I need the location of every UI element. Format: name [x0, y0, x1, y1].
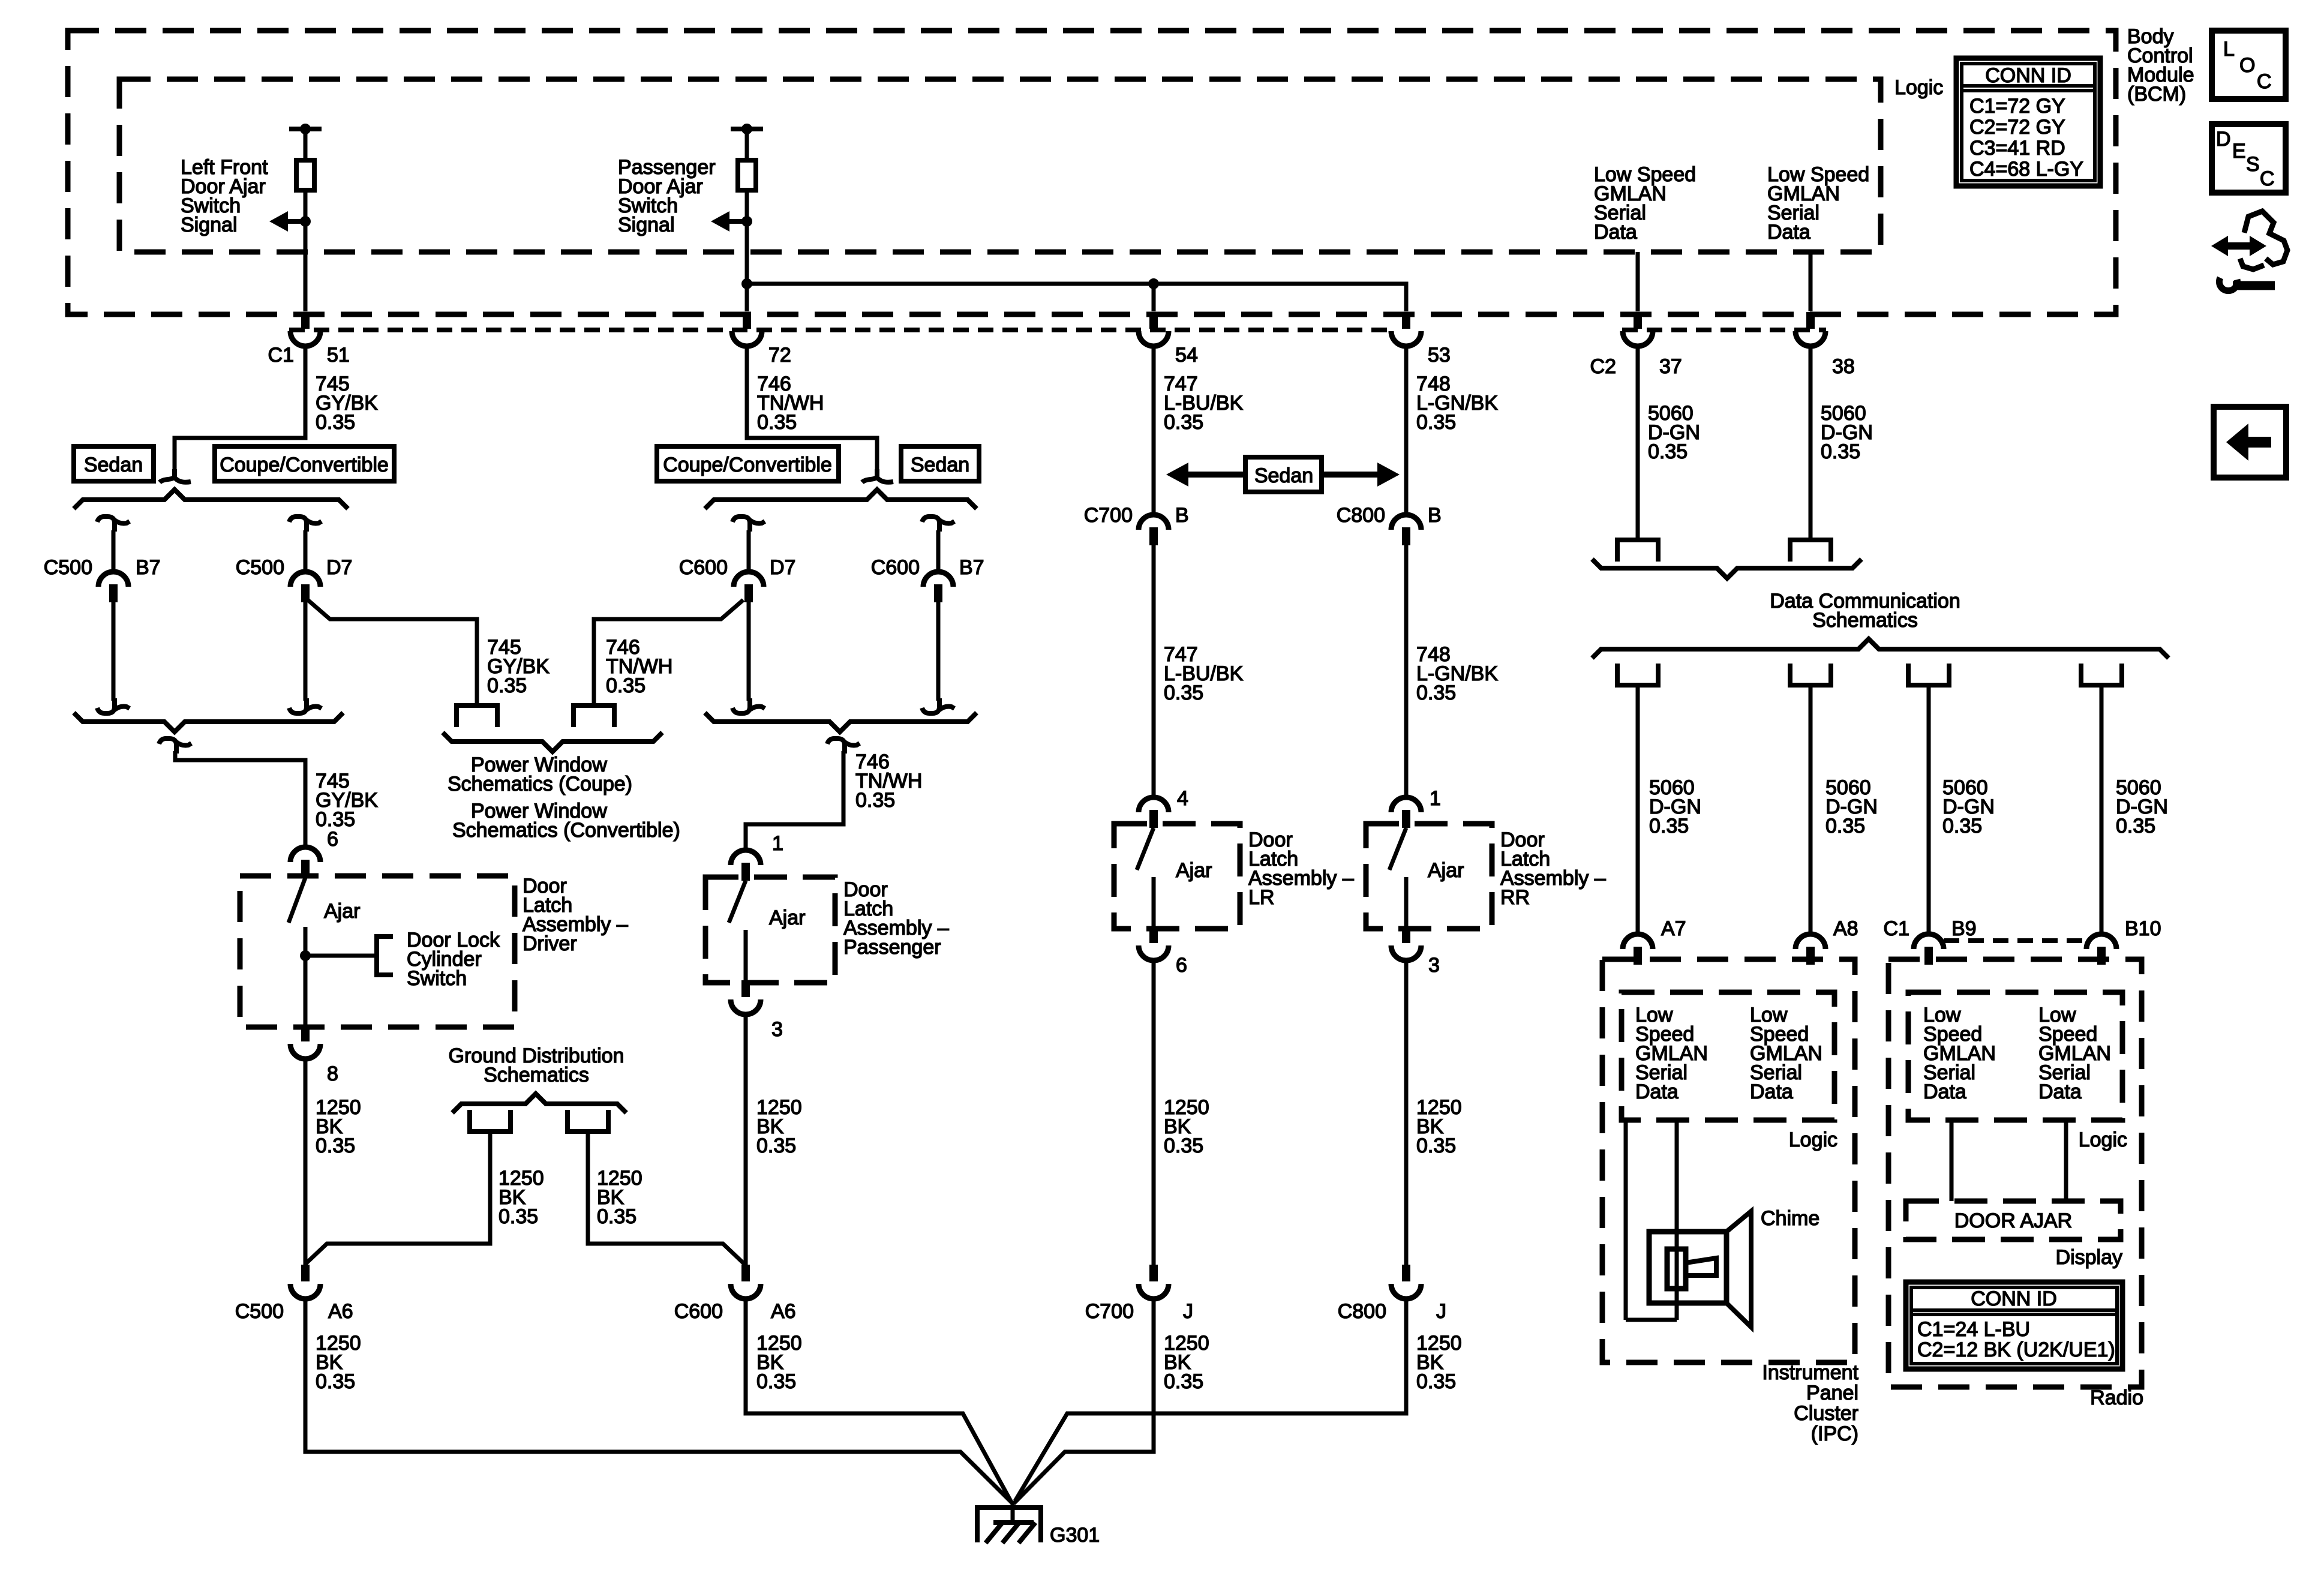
signal arrow (passenger door ajar switch signal) — [729, 219, 747, 224]
svg-text:Display: Display — [2056, 1246, 2122, 1269]
brace power window schematics — [443, 733, 662, 752]
svg-text:Logic: Logic — [2079, 1128, 2127, 1151]
svg-text:Ajar: Ajar — [324, 900, 360, 923]
wire to door lock cylinder switch — [305, 954, 374, 958]
svg-text:G301: G301 — [1050, 1524, 1100, 1547]
wire branch to pins 54 and 53 — [747, 284, 1406, 311]
svg-text:L: L — [2223, 38, 2235, 61]
svg-text:Logic: Logic — [1789, 1128, 1837, 1151]
dotted connector line C1 (radio) — [1944, 938, 2089, 943]
terminal from ground distribution (left) — [470, 1110, 511, 1131]
connector C800-J — [1402, 1265, 1410, 1281]
wire 747 from pin 54 to C700 — [1152, 346, 1156, 514]
wire display drive left — [1950, 1120, 1954, 1201]
junction dot — [741, 216, 752, 227]
svg-text:Radio: Radio — [2090, 1386, 2143, 1409]
module box: Body Control Module (BCM) outer dashed outline — [68, 31, 2116, 314]
wire 1250 from RR latch — [1404, 960, 1409, 1265]
connector C800-B — [1391, 515, 1421, 530]
BCM internal Logic dashed box — [119, 79, 1881, 252]
wire 1250 from LR latch — [1152, 960, 1156, 1265]
wire chime drive left — [1624, 1120, 1628, 1320]
table CONN ID (BCM) — [1956, 58, 2100, 186]
junction dot — [300, 216, 311, 227]
IPC internal Logic dashed box — [1622, 992, 1834, 1120]
off-page hook (passenger latch wire) — [827, 739, 845, 754]
junction dot (door lock cylinder switch tap) — [300, 950, 311, 961]
terminal from data communication (A8) — [1790, 664, 1831, 685]
svg-text:38: 38 — [1832, 355, 1855, 378]
svg-text:6: 6 — [1176, 954, 1187, 977]
svg-text:CONN ID: CONN ID — [1985, 64, 2071, 87]
connector pin 6 (door latch assembly driver) — [290, 847, 320, 862]
svg-text:Coupe/Convertible: Coupe/Convertible — [663, 454, 832, 476]
svg-text:D7: D7 — [326, 556, 352, 579]
wire break symbol — [160, 469, 175, 482]
brace data communication (module side) — [1592, 639, 2169, 658]
svg-text:O: O — [2239, 54, 2255, 77]
svg-text:Logic: Logic — [1894, 76, 1943, 99]
wire 746 to passenger door latch — [746, 751, 843, 852]
terminal from data communication (B10) — [2081, 664, 2122, 685]
svg-text:A6: A6 — [328, 1300, 353, 1323]
svg-text:Schematics (Coupe): Schematics (Coupe) — [448, 773, 632, 795]
wire C500-D7 branch with off-page hooks — [289, 517, 307, 532]
door lock cylinder switch bracket — [377, 936, 393, 975]
wire — [1152, 877, 1156, 929]
wire C800-J to G301 — [1015, 1297, 1406, 1501]
svg-text:Ajar: Ajar — [1428, 859, 1464, 882]
module box: Door Latch Assembly - RR (dashed) — [1366, 824, 1492, 929]
wire — [305, 1131, 490, 1264]
module box: Door Latch Assembly - Passenger (dashed) — [705, 877, 835, 983]
connector pin C1-B9 (radio) — [1914, 934, 1944, 949]
terminal to power window schematics (745) — [457, 706, 497, 727]
connector pin B10 (radio) — [2086, 934, 2116, 949]
terminal from ground distribution (right) — [568, 1110, 608, 1131]
svg-text:C700: C700 — [1085, 1300, 1134, 1323]
connector C600-D7 — [734, 572, 764, 587]
svg-text:C700: C700 — [1084, 504, 1133, 527]
svg-text:C1: C1 — [1884, 917, 1909, 940]
switch: RR door ajar switch blade — [1389, 828, 1406, 870]
svg-text:72: 72 — [768, 344, 791, 367]
wire — [1636, 346, 1640, 539]
connector pin 53 — [1402, 312, 1410, 329]
svg-text:C800: C800 — [1338, 1300, 1386, 1323]
svg-text:51: 51 — [327, 344, 350, 367]
icon back arrow box — [2214, 407, 2286, 478]
svg-text:A6: A6 — [771, 1300, 796, 1323]
svg-text:S: S — [2246, 153, 2260, 176]
box Coupe/Convertible (left) — [215, 446, 394, 481]
svg-text:3: 3 — [1428, 954, 1440, 977]
box Sedan (passenger) — [901, 446, 979, 481]
terminal from data communication (B9) — [1908, 664, 1949, 685]
wire 1250 from driver latch — [304, 1059, 308, 1266]
wire 1250 from passenger latch — [744, 1014, 748, 1266]
connector C500-A6 — [301, 1265, 310, 1281]
switch: driver door ajar switch blade — [289, 878, 305, 923]
svg-text:C500: C500 — [44, 556, 92, 579]
svg-text:C600: C600 — [871, 556, 920, 579]
svg-text:37: 37 — [1659, 355, 1682, 378]
connector C600-A6 — [741, 1265, 750, 1281]
wire break symbol — [862, 469, 877, 482]
svg-text:Chime: Chime — [1761, 1207, 1819, 1230]
connector pin 1 (door latch assembly RR) — [1391, 797, 1421, 812]
wire 745 from pin 51 to body split — [175, 346, 305, 474]
wire display drive right — [2064, 1120, 2068, 1201]
wire C600-D7 branch with off-page hooks — [732, 517, 750, 532]
resistor: left front door ajar switch sense — [296, 160, 314, 190]
node: BCM internal bus stub (passenger) — [731, 127, 763, 131]
wire — [1152, 284, 1156, 311]
connector pin 38 — [1806, 312, 1815, 329]
brace grouping C500 variants (driver) — [74, 490, 348, 509]
connector pin A8 (IPC) — [1795, 934, 1825, 949]
wire 748 from pin 53 to C800 — [1404, 346, 1409, 514]
terminal to power window schematics (746) — [574, 706, 614, 727]
connector C500-B7 — [98, 572, 128, 587]
brace grouping C600 variants (passenger) — [705, 490, 977, 509]
node: BCM internal bus stub (left front) — [289, 127, 322, 131]
svg-text:Schematics (Convertible): Schematics (Convertible) — [452, 819, 680, 842]
connector pin C2-37 — [1634, 312, 1642, 329]
box Sedan (left) — [74, 446, 154, 481]
svg-text:C600: C600 — [674, 1300, 723, 1323]
wire 5060 from logic (37) — [1636, 252, 1640, 311]
wire — [1404, 545, 1409, 797]
svg-text:Sedan: Sedan — [911, 454, 969, 476]
svg-text:C600: C600 — [679, 556, 728, 579]
connector pin 4 (door latch assembly LR) — [1139, 797, 1169, 812]
svg-text:1: 1 — [1430, 787, 1441, 810]
arrow Sedan (left) — [1188, 472, 1245, 478]
resistor: passenger door ajar switch sense — [738, 160, 756, 190]
module box: Instrument Panel Cluster (IPC) dashed outline — [1602, 959, 1855, 1362]
wire C500-B7 branch with off-page hooks — [97, 517, 115, 532]
connector pin C1-51 — [301, 312, 310, 329]
svg-text:C500: C500 — [236, 556, 284, 579]
dotted connector line C2 — [1622, 328, 1826, 332]
svg-text:53: 53 — [1428, 344, 1451, 367]
wire — [1626, 1318, 1677, 1322]
wire 745 branch to power window schematics — [308, 600, 477, 706]
connector pin 8 (driver latch ground out) — [301, 1025, 310, 1041]
svg-text:Ajar: Ajar — [769, 906, 805, 929]
svg-text:1: 1 — [772, 832, 783, 855]
svg-text:A8: A8 — [1833, 917, 1858, 940]
svg-text:E: E — [2232, 140, 2246, 163]
brace ground distribution schematics — [452, 1094, 626, 1113]
wire C600-B7 branch with off-page hooks — [922, 517, 939, 532]
connector pin 72 — [743, 312, 751, 329]
wire — [1809, 346, 1813, 539]
box Sedan (rear latch variant) — [1245, 457, 1322, 492]
terminal to data communication schematics (37) — [1617, 540, 1658, 562]
wire chime drive right — [1675, 1120, 1679, 1320]
svg-text:C1: C1 — [268, 344, 294, 367]
brace data communication (BCM side) — [1592, 559, 1861, 578]
svg-text:B9: B9 — [1951, 917, 1977, 940]
connector C500-D7 — [290, 572, 320, 587]
svg-text:A7: A7 — [1661, 917, 1686, 940]
svg-text:J: J — [1436, 1300, 1446, 1323]
junction dot (branch to pins 54/53) — [741, 278, 752, 289]
wire — [304, 927, 308, 1027]
wire — [304, 190, 308, 311]
svg-text:B7: B7 — [959, 556, 984, 579]
wire 745 to driver door latch — [175, 751, 305, 849]
svg-text:Sedan: Sedan — [84, 454, 143, 476]
svg-text:Sedan: Sedan — [1254, 464, 1313, 487]
wire 5060 from logic (38) — [1809, 252, 1813, 311]
wire — [588, 1131, 746, 1265]
signal arrow (left front door ajar switch signal) — [288, 219, 305, 224]
wire — [745, 190, 749, 311]
brace joining C500 variants to driver latch wire — [74, 713, 343, 732]
connector C600-B7 — [923, 572, 953, 587]
wire — [1404, 877, 1409, 929]
radio internal Logic dashed box — [1908, 992, 2122, 1120]
icon DESC box — [2212, 124, 2286, 193]
module box: Radio dashed outline — [1888, 959, 2142, 1387]
brace joining C600 variants to passenger latch wire — [705, 713, 977, 732]
svg-text:4: 4 — [1177, 787, 1188, 810]
module box: Door Latch Assembly - LR (dashed) — [1114, 824, 1240, 929]
arrow Sedan (right) — [1322, 472, 1377, 478]
svg-text:Coupe/Convertible: Coupe/Convertible — [220, 454, 389, 476]
dotted connector line C1 — [289, 328, 1393, 332]
box Coupe/Convertible (passenger) — [657, 446, 839, 481]
wire 746 from pin 72 to body split — [747, 346, 877, 474]
svg-text:C: C — [2260, 167, 2275, 190]
connector C700-J — [1149, 1265, 1158, 1281]
switch: passenger door ajar switch blade — [729, 881, 746, 923]
svg-text:C2: C2 — [1590, 355, 1616, 378]
svg-text:D7: D7 — [770, 556, 795, 579]
svg-text:3: 3 — [771, 1018, 783, 1041]
svg-text:D: D — [2216, 128, 2231, 151]
connector pin 3 (RR latch ground out) — [1402, 926, 1410, 943]
connector pin 3 (passenger latch ground out) — [741, 980, 750, 997]
svg-text:Ajar: Ajar — [1176, 859, 1212, 882]
svg-text:8: 8 — [327, 1062, 338, 1085]
off-page hook (driver latch wire) — [159, 739, 176, 754]
svg-text:B: B — [1428, 504, 1442, 527]
icon LOC box — [2212, 31, 2286, 99]
svg-text:C: C — [2257, 70, 2272, 93]
svg-text:B7: B7 — [136, 556, 161, 579]
wire C700-J to G301 — [1014, 1297, 1154, 1503]
svg-text:C800: C800 — [1337, 504, 1385, 527]
terminal from data communication (A7) — [1617, 664, 1658, 685]
wire — [304, 129, 308, 160]
wire — [745, 129, 749, 160]
icon door-latch service (double arrow, striker outline, wrench) — [2222, 242, 2256, 250]
module box: Door Latch Assembly - Driver (dashed) — [240, 876, 515, 1027]
chime sounder (speaker) — [1649, 1232, 1727, 1303]
table CONN ID (radio) — [1906, 1282, 2122, 1369]
wire — [744, 930, 748, 983]
wire 746 branch to power window schematics — [594, 600, 743, 706]
svg-text:C500: C500 — [235, 1300, 284, 1323]
svg-text:54: 54 — [1175, 344, 1198, 367]
ground G301 — [1011, 1501, 1015, 1524]
switch: LR door ajar switch blade — [1137, 828, 1154, 870]
svg-text:CONN ID: CONN ID — [1971, 1287, 2057, 1310]
terminal to data communication schematics (38) — [1790, 540, 1831, 562]
svg-text:J: J — [1183, 1300, 1193, 1323]
wire C600-A6 to G301 — [746, 1297, 1011, 1502]
wire C500-A6 to G301 — [305, 1297, 1014, 1505]
connector pin 6 (LR latch ground out) — [1149, 926, 1158, 943]
svg-text:6: 6 — [327, 828, 338, 851]
display box DOOR AJAR (dashed) — [1906, 1201, 2121, 1239]
svg-text:B: B — [1175, 504, 1189, 527]
connector pin 54 — [1149, 312, 1158, 329]
svg-text:DOOR AJAR: DOOR AJAR — [1954, 1209, 2072, 1232]
connector C700-B — [1139, 515, 1169, 530]
connector pin A7 (IPC) — [1623, 934, 1653, 949]
svg-text:B10: B10 — [2125, 917, 2161, 940]
wire — [1152, 545, 1156, 797]
connector pin 1 (door latch assembly passenger) — [731, 850, 761, 865]
